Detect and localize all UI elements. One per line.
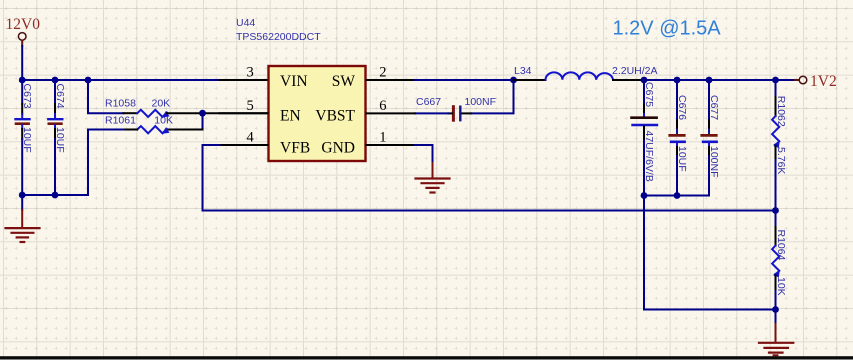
pin 4 wire (220, 144, 268, 146)
wire EN to R1061 (202, 113, 204, 129)
svg-text:U44: U44 (236, 17, 255, 29)
svg-text:TPS562200DDCT: TPS562200DDCT (236, 31, 321, 43)
svg-text:GND: GND (321, 140, 355, 157)
svg-text:10UF: 10UF (54, 127, 66, 153)
wire VFB to feedback (203, 145, 776, 211)
svg-text:C667: C667 (416, 96, 441, 108)
wire GND bend (415, 145, 433, 163)
node junction C677 (706, 77, 713, 84)
power port terminal 12V0 (18, 33, 26, 41)
wire 1V2 stub (795, 79, 799, 81)
svg-text:L34: L34 (514, 65, 532, 77)
resistor R1061 (137, 126, 167, 133)
svg-text:C676: C676 (676, 95, 688, 120)
svg-text:4: 4 (247, 130, 255, 146)
svg-text:VFB: VFB (280, 140, 310, 157)
svg-text:10K: 10K (154, 114, 173, 126)
power port terminal 1V2 (799, 76, 807, 84)
svg-text:5: 5 (247, 98, 254, 114)
svg-text:R1064: R1064 (775, 230, 787, 261)
wire R1061 left (124, 129, 138, 131)
node junction EN (199, 110, 206, 117)
wire R1058 left (88, 80, 124, 113)
svg-text:C674: C674 (54, 84, 66, 109)
inductor L34 (514, 72, 645, 80)
node junction 12V0/C673 (19, 77, 26, 84)
pin 1 wire GND (367, 144, 416, 146)
wire ground bus left (22, 194, 88, 196)
svg-text:EN: EN (280, 108, 301, 125)
svg-text:VIN: VIN (280, 73, 308, 90)
wire SW to C667 (471, 80, 514, 113)
svg-text:1.2V @1.5A: 1.2V @1.5A (613, 18, 722, 40)
svg-text:1V2: 1V2 (810, 73, 837, 90)
svg-text:20K: 20K (152, 97, 171, 109)
resistor R1064 (772, 211, 780, 310)
pin 5 wire stub (chip side) (220, 112, 268, 114)
svg-text:100NF: 100NF (465, 96, 497, 108)
ground symbol right (759, 310, 793, 356)
resistor R1062 (772, 80, 780, 211)
IC U1 body TPS562200DDCT (269, 66, 366, 161)
node junction bus C675 (641, 192, 648, 199)
node junction gnd right (772, 306, 779, 313)
wire 12V0 vertical (21, 46, 23, 80)
wire VIN horizontal (22, 79, 219, 81)
node junction C675 (641, 77, 648, 84)
svg-text:10K: 10K (775, 277, 787, 296)
wire R1058 right (pin) (167, 112, 268, 114)
node junction R1062 (772, 77, 779, 84)
wire SW horizontal (415, 79, 514, 81)
capacitor C677 (702, 80, 717, 196)
svg-text:1: 1 (379, 130, 386, 146)
svg-text:SW: SW (332, 73, 356, 90)
svg-text:R1058: R1058 (105, 97, 136, 109)
node junction C676 (674, 77, 681, 84)
node junction C674 (52, 77, 59, 84)
ground symbol U44 (416, 163, 450, 193)
wire 12V0 stub (21, 41, 23, 47)
svg-text:C673: C673 (21, 84, 33, 109)
ground symbol left (6, 195, 40, 242)
svg-text:2.2UH/2A: 2.2UH/2A (612, 65, 658, 77)
node junction bus C676 (674, 192, 681, 199)
capacitor C673 (16, 80, 30, 195)
node junction C674 gnd (52, 192, 59, 199)
wire bus down (644, 196, 776, 310)
pin 2 wire SW (367, 79, 416, 81)
capacitor C676 (670, 80, 685, 196)
node junction SW/L34 (510, 77, 517, 84)
svg-text:100NF: 100NF (708, 146, 720, 178)
svg-text:VBST: VBST (315, 108, 355, 125)
svg-text:12V0: 12V0 (6, 16, 41, 33)
svg-text:10UF: 10UF (21, 127, 33, 153)
sheet bottom border (0, 356, 853, 359)
node junction FB (772, 207, 779, 214)
svg-text:2: 2 (379, 64, 386, 80)
svg-text:R1061: R1061 (105, 114, 136, 126)
node junction R1058 (85, 77, 92, 84)
pin 3 wire (220, 79, 268, 81)
svg-text:3: 3 (247, 64, 254, 80)
capacitor C675 (632, 80, 657, 196)
svg-text:5.76K: 5.76K (775, 147, 787, 174)
svg-text:6: 6 (379, 98, 386, 114)
wire output horizontal (644, 79, 795, 81)
capacitor C667 (415, 107, 460, 121)
resistor R1058 (137, 110, 167, 117)
svg-text:R1062: R1062 (775, 96, 787, 127)
svg-text:47UF/6V/B: 47UF/6V/B (643, 131, 655, 182)
svg-text:10UF: 10UF (676, 146, 688, 172)
pin 6 wire VBST (367, 112, 416, 114)
svg-text:C675: C675 (643, 82, 655, 107)
node junction C673 gnd (19, 192, 26, 199)
wire caps ground bus (644, 195, 709, 197)
capacitor C674 (48, 80, 62, 195)
svg-text:C677: C677 (708, 95, 720, 120)
